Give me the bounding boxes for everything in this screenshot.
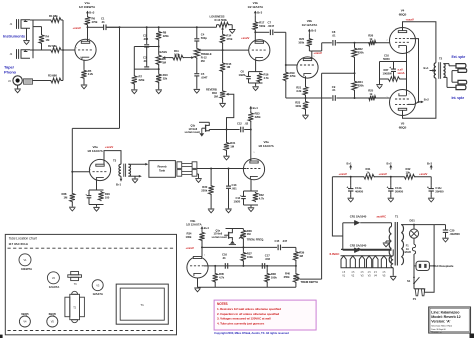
- resistor R20 100k plate V2b: [308, 34, 310, 38]
- capacitor C1 .01: [88, 26, 104, 28]
- power node B+2: [390, 176, 392, 178]
- potentiometer TREBLE R12 2M: [196, 41, 198, 48]
- wire C12 to Q1b: [209, 129, 239, 131]
- resistor R35 4.7k: [214, 266, 216, 273]
- tube V3a 1/2 12AX7A: [243, 159, 264, 180]
- resistor R25 1k grid stopper V5: [368, 96, 377, 101]
- capacitor C14a 40/450: [350, 177, 352, 186]
- svg-text:.01: .01: [101, 20, 105, 24]
- switch S1: [413, 277, 415, 279]
- ground T1 center tap: [386, 240, 392, 242]
- resistor R11 100k: [169, 57, 172, 59]
- resistor R23 100k: [305, 98, 307, 101]
- node loudness wiper to R14: [222, 30, 224, 33]
- svg-text:3AGB: 3AGB: [404, 251, 411, 254]
- svg-text:.01: .01: [332, 34, 336, 38]
- resistor R39 1M: [293, 251, 298, 261]
- svg-text:500k: 500k: [259, 24, 265, 28]
- wire heater bus bottom: [341, 267, 394, 269]
- tube V2a 1/2 12AX7A: [89, 159, 110, 180]
- capacitor C7 .0047: [269, 30, 271, 36]
- wire heater bus mid: [341, 255, 391, 257]
- transistor Q1b oscillator device: [199, 121, 209, 123]
- node C4 top: [196, 26, 198, 28]
- svg-text:Ext. spkr: Ext. spkr: [452, 55, 466, 59]
- transistor Q1a oscillator device: [226, 228, 244, 230]
- svg-text:.002: .002: [143, 37, 149, 41]
- svg-text:220k: 220k: [358, 51, 364, 55]
- wire heater bus top: [391, 249, 393, 251]
- ground V3a cathode: [250, 205, 252, 207]
- wire reverb send tap: [119, 27, 121, 128]
- svg-text:Schematic: Miles O'Neal: Schematic: Miles O'Neal: [431, 325, 452, 328]
- svg-text:250k: 250k: [284, 275, 290, 279]
- ground R31: [226, 151, 228, 156]
- bass wiper arrow: [163, 57, 169, 59]
- svg-text:+: +: [389, 66, 391, 70]
- svg-text:Date: 30 Sept 00: Date: 30 Sept 00: [431, 328, 446, 331]
- title block: [429, 307, 471, 333]
- wire grid junction to V1b: [223, 49, 249, 51]
- svg-text:Version: 'A': Version: 'A': [431, 320, 450, 324]
- svg-text:220k: 220k: [255, 115, 261, 119]
- wire mains right leg: [424, 225, 434, 293]
- ground R23: [305, 109, 307, 114]
- svg-text:.001: .001: [232, 186, 238, 190]
- resistor R6 470k plate load V1a: [87, 14, 89, 17]
- resistor R14 470k: [220, 33, 225, 43]
- capacitor C13 .001: [228, 169, 230, 186]
- fuse F1 1A 3AGB: [413, 238, 415, 244]
- svg-text:220k: 220k: [201, 189, 207, 193]
- svg-text:3. Voltages measured w/ 120VAC: 3. Voltages measured w/ 120VAC at wall: [217, 317, 271, 321]
- svg-text:100k: 100k: [186, 235, 192, 239]
- svg-text:4.7k: 4.7k: [219, 276, 225, 280]
- resistor R42 10k: [404, 174, 416, 179]
- svg-text:Instruments: Instruments: [3, 34, 26, 39]
- svg-text:22k: 22k: [163, 76, 168, 80]
- wire T3 secondary to tank: [128, 163, 146, 165]
- wire trem depth wiper: [300, 278, 322, 280]
- svg-text:TREM DEPTH: TREM DEPTH: [301, 280, 318, 284]
- chart tube V1: [19, 254, 31, 266]
- svg-text:Phono: Phono: [4, 70, 17, 75]
- capacitor C14c 20/450: [430, 177, 432, 186]
- svg-text:socket mount: socket mount: [212, 236, 228, 239]
- cathode network V2a C11 R29: [96, 180, 98, 190]
- svg-text:20/450: 20/450: [435, 189, 444, 193]
- wire C9 to V5 grid: [336, 97, 389, 99]
- wire V2b grid feed: [285, 64, 287, 66]
- svg-text:B+3: B+3: [427, 161, 432, 165]
- wire jack sleeve bus: [32, 20, 34, 58]
- svg-text:1/2 12AX7A: 1/2 12AX7A: [248, 5, 264, 9]
- wire V2a grid: [72, 171, 89, 173]
- phono plug housing: [24, 79, 33, 84]
- svg-text:500p: 500p: [201, 36, 207, 40]
- corner mark: [470, 334, 474, 338]
- power B+3 for V1b: [254, 11, 256, 15]
- svg-text:+: +: [427, 186, 429, 190]
- chart transformer T1: [116, 284, 168, 324]
- svg-text:Model: Reverb 12: Model: Reverb 12: [431, 315, 460, 319]
- svg-text:3.3k: 3.3k: [296, 89, 302, 93]
- svg-text:.002/600: .002/600: [450, 232, 461, 236]
- power B+1 to output transformer: [430, 70, 435, 72]
- ground V1a cathode: [83, 78, 85, 84]
- svg-text:CR1 SA/1040: CR1 SA/1040: [350, 214, 367, 218]
- wire R8 to bass pot: [158, 40, 160, 54]
- wire grid junction to V1a: [62, 49, 64, 51]
- resistor R34 100k plate V3b: [201, 230, 203, 232]
- svg-text:xxxVAC: xxxVAC: [377, 214, 387, 218]
- svg-text:100: 100: [105, 196, 110, 200]
- wire rectifier left join: [342, 223, 344, 250]
- ground tank connector: [197, 173, 199, 175]
- wire R24 to lower bus: [354, 90, 356, 98]
- speaker jack ext: [443, 63, 449, 65]
- svg-text:+xxxV: +xxxV: [419, 172, 427, 176]
- screen wire V4: [410, 39, 419, 102]
- transformer T1 heater winding: [391, 256, 393, 268]
- heater windings V1-V5: [341, 256, 346, 268]
- resistor R21 3.3k cathode V2b: [305, 76, 307, 86]
- wire V3a plate stem: [250, 121, 252, 161]
- capacitor C14b 20/450: [390, 177, 392, 186]
- svg-text:.0047: .0047: [268, 24, 275, 28]
- svg-text:T3: T3: [113, 158, 117, 162]
- svg-text:B+1: B+1: [347, 161, 352, 165]
- resistor R7 220k: [132, 75, 137, 85]
- tube V1a 1/2 10EW7A: [75, 39, 96, 60]
- svg-text:+: +: [347, 186, 349, 190]
- svg-text:R1 68k: R1 68k: [49, 14, 58, 18]
- svg-text:470k: 470k: [92, 20, 98, 24]
- ground R10: [158, 83, 160, 90]
- svg-text:DS1: DS1: [410, 218, 416, 222]
- ground C14a: [350, 194, 352, 197]
- node R8 top: [158, 26, 160, 28]
- svg-text:B+1: B+1: [424, 66, 429, 70]
- svg-text:.047: .047: [282, 239, 288, 243]
- wire B+ rail: [332, 176, 363, 178]
- svg-text:CR2 SA/1040: CR2 SA/1040: [350, 243, 367, 247]
- resistor R37 100k: [242, 247, 244, 251]
- svg-text:T1: T1: [395, 214, 399, 218]
- svg-text:.0047: .0047: [201, 75, 208, 79]
- resistor R28 1M: [71, 172, 73, 193]
- svg-text:+xxxV: +xxxV: [379, 172, 387, 176]
- ground REVERB pot: [222, 98, 224, 102]
- svg-text:C12: C12: [237, 121, 242, 125]
- tank output connectors: [177, 162, 182, 169]
- wire V4 plate to transformer: [403, 22, 436, 63]
- wire V5 plate to transformer: [403, 78, 436, 118]
- capacitor C9 .01: [332, 95, 334, 101]
- wire R22 R24 junction: [354, 57, 356, 80]
- svg-text:470k: 470k: [290, 74, 296, 78]
- transformer T1 HV secondary: [391, 223, 393, 227]
- svg-text:100k: 100k: [271, 276, 277, 280]
- tube V1b 1/2 12AX7A: [249, 40, 270, 61]
- svg-text:+: +: [387, 186, 389, 190]
- ground C14b: [390, 194, 392, 197]
- ground C20: [442, 237, 449, 239]
- tube location chart box: [5, 234, 176, 334]
- svg-text:T1: T1: [140, 303, 144, 307]
- corner mark bottom left: [0, 335, 3, 338]
- resistor R5 2.2k cathode V1a: [83, 60, 85, 70]
- capacitor C12 .02: [240, 127, 242, 133]
- resistor R19 470k: [285, 65, 287, 71]
- svg-text:B+3: B+3: [89, 10, 94, 14]
- AC receptacle: [416, 261, 429, 270]
- svg-text:12AX7A: 12AX7A: [92, 292, 103, 296]
- power B+3 for V2b: [308, 29, 310, 33]
- svg-text:6BQ5: 6BQ5: [399, 125, 407, 129]
- cathode network C10 R27: [406, 46, 408, 79]
- wire C7 to splitter bus: [274, 31, 286, 33]
- svg-text:AC Receptacle: AC Receptacle: [435, 264, 454, 268]
- svg-text:T2: T2: [439, 56, 443, 60]
- ground phono jack: [17, 85, 19, 88]
- wire trem grid bus: [204, 265, 296, 267]
- resistor R1 68k: [50, 18, 62, 23]
- chassis dashed bottom line: [8, 330, 174, 332]
- wire bass cap taps: [134, 46, 158, 48]
- svg-text:1/2 12AX7A: 1/2 12AX7A: [302, 23, 318, 27]
- svg-text:10k: 10k: [406, 170, 411, 174]
- svg-text:220k: 220k: [163, 34, 169, 38]
- svg-text:6BQ5: 6BQ5: [399, 12, 407, 16]
- svg-text:6.3VAC: 6.3VAC: [330, 252, 341, 256]
- jack J1: [21, 20, 30, 29]
- capacitor C3 .01: [144, 66, 149, 68]
- ground V1b cathode: [255, 83, 257, 86]
- svg-text:40/450: 40/450: [355, 189, 364, 193]
- cathode network V3a C14 R32: [250, 179, 252, 191]
- svg-text:Int. spkr: Int. spkr: [452, 96, 465, 100]
- chart transformer T3: [71, 272, 79, 275]
- treble wiper arrow: [183, 57, 192, 59]
- svg-text:R3 68K: R3 68K: [48, 74, 57, 78]
- wire V3b plate stem: [201, 241, 203, 257]
- svg-text:Copyright 2000, Miles O'Neal,: Copyright 2000, Miles O'Neal, Austin, TX…: [214, 331, 289, 335]
- svg-text:Tank: Tank: [159, 168, 166, 172]
- transformer T2 secondary: [443, 64, 445, 78]
- chart tube V3: [92, 280, 103, 291]
- svg-text:R-13 500k: R-13 500k: [215, 18, 228, 22]
- svg-text:470k: 470k: [226, 37, 232, 41]
- resistor R30 220k: [210, 169, 212, 185]
- wire main signal bus: [119, 26, 121, 28]
- resistor R4 1M: [41, 27, 43, 34]
- capacitor C20 .002/600: [434, 224, 445, 226]
- potentiometer R40 250k trem depth: [293, 273, 298, 283]
- svg-text:+xxxV: +xxxV: [186, 246, 194, 250]
- tube V5 6BQ5: [390, 90, 416, 116]
- wire rail to rectifier: [332, 177, 342, 236]
- capacitor C8 .01: [332, 40, 334, 46]
- label B+2 screens: [408, 103, 414, 105]
- svg-text:+xxxV: +xxxV: [406, 18, 414, 22]
- wire V2a plate to T3: [104, 151, 121, 165]
- wire trem bottom bus: [197, 278, 199, 287]
- svg-text:.002: .002: [265, 257, 271, 261]
- svg-text:+xxxV: +xxxV: [73, 26, 81, 30]
- wire C2 to C3: [146, 47, 148, 66]
- wire C2 branch: [146, 27, 148, 44]
- wire V1b plate stem: [254, 30, 256, 42]
- svg-text:.01: .01: [222, 256, 226, 260]
- svg-text:B+3: B+3: [257, 10, 262, 14]
- svg-text:C15: C15: [275, 239, 280, 243]
- loudness wiper arrow: [222, 29, 224, 30]
- wire J1 tip to R1: [30, 19, 50, 21]
- wire C8 to V4 grid: [336, 42, 389, 44]
- cathode network V1b C6 R16: [255, 60, 257, 71]
- ground C14c: [430, 194, 432, 197]
- ground T3 secondary: [134, 176, 136, 178]
- svg-text:TREM. FREQ.: TREM. FREQ.: [247, 238, 264, 242]
- svg-text:10/20: 10/20: [239, 73, 246, 77]
- chart transformer T2: [72, 291, 78, 294]
- svg-text:+xxxV: +xxxV: [313, 51, 321, 55]
- svg-text:xxmA: xxmA: [398, 71, 405, 75]
- wire treble pot to C5: [196, 58, 198, 73]
- power B+4 for V3a: [250, 107, 252, 111]
- notes box: [214, 300, 316, 330]
- svg-text:4.7k: 4.7k: [259, 196, 265, 200]
- capacitor C15 .047: [277, 245, 279, 251]
- svg-text:117 VAC 60 Hz: 117 VAC 60 Hz: [9, 242, 29, 246]
- resistor R41 1k: [363, 174, 375, 179]
- phono jack J3: [13, 76, 22, 85]
- plug P1: [413, 283, 415, 288]
- svg-text:B+1: B+1: [116, 182, 121, 186]
- capacitor C16 .01: [224, 263, 226, 269]
- svg-text:R2 68k: R2 68k: [48, 44, 57, 48]
- svg-text:10EW7A: 10EW7A: [21, 267, 33, 271]
- wire treble wiper to junction: [199, 49, 223, 51]
- resistor R15 1M: [220, 62, 225, 72]
- resistor R26 1k grid stopper V4: [368, 40, 377, 45]
- svg-text:6BQ5: 6BQ5: [21, 312, 29, 316]
- resistor R3 68K: [50, 78, 62, 83]
- ground trem oscillator: [194, 287, 201, 289]
- svg-text:+xxxV: +xxxV: [105, 145, 113, 149]
- svg-text:100k: 100k: [295, 104, 301, 108]
- capacitor C5 .0047: [194, 73, 199, 75]
- wire R14 to V1b grid junction: [222, 43, 224, 62]
- svg-text:1/2 10EW7A: 1/2 10EW7A: [79, 5, 96, 9]
- ground cathode network: [376, 84, 383, 86]
- wire R19 to lower bus: [285, 81, 287, 98]
- wire V1b plate to C7: [255, 31, 269, 33]
- wire R15 to reverb pot: [222, 72, 224, 90]
- tube V4 6BQ5: [390, 28, 416, 54]
- svg-text:B+2: B+2: [424, 98, 429, 102]
- resistor R10 22k: [156, 73, 161, 83]
- svg-text:1/2 12AX7A: 1/2 12AX7A: [258, 144, 274, 148]
- power B+4 for V3b: [201, 227, 203, 231]
- wire V2b plate to top coupling bus: [312, 50, 322, 52]
- transformer T1 core: [394, 222, 396, 266]
- wire trem injection: [322, 72, 355, 74]
- wire reverb wiper to recovery mix: [227, 94, 234, 129]
- wire plate to C12: [244, 129, 251, 131]
- resistor R17 500k plate V1b: [254, 15, 256, 21]
- wire lower coupling bus: [286, 97, 332, 99]
- power node B+1: [350, 176, 352, 178]
- ground C5: [196, 76, 198, 89]
- svg-text:1k: 1k: [369, 37, 372, 41]
- ground R30: [210, 194, 212, 208]
- svg-text:100k: 100k: [298, 41, 304, 45]
- svg-text:Tube Location Chart: Tube Location Chart: [9, 236, 38, 240]
- transformer T1 primary: [401, 225, 403, 265]
- svg-text:1/2 12AX7A: 1/2 12AX7A: [87, 149, 103, 153]
- svg-text:220k: 220k: [139, 78, 145, 82]
- svg-text:1. Resistors 1/2 watt unless o: 1. Resistors 1/2 watt unless otherwise s…: [217, 307, 281, 311]
- svg-text:10/20: 10/20: [234, 200, 241, 204]
- resistor R31 1M: [226, 130, 228, 142]
- resistor R33 220k plate V3a: [250, 111, 252, 112]
- resistor R2 68k: [50, 48, 62, 53]
- wire trem top bus: [242, 239, 244, 248]
- ground input jacks: [26, 28, 28, 40]
- wire V2b plate stem: [308, 46, 310, 51]
- reverb wiper arrow: [228, 93, 229, 95]
- resistor R24 220k: [352, 80, 357, 91]
- capacitor C17 .002: [261, 263, 263, 269]
- svg-text:2. Capacitors in uF unless oth: 2. Capacitors in uF unless otherwise spe…: [217, 312, 279, 316]
- svg-text:220k: 220k: [358, 84, 364, 88]
- potentiometer R36 1M trem freq: [242, 228, 244, 231]
- wire T1 primary top to mains: [401, 224, 434, 226]
- wire top bus to R39: [282, 246, 296, 248]
- svg-text:BASS: BASS: [160, 50, 168, 54]
- svg-text:4. Tube pins currently just gu: 4. Tube pins currently just guesses: [217, 321, 265, 325]
- wire J3 to R3: [33, 80, 51, 82]
- svg-text:+xxxV: +xxxV: [339, 172, 347, 176]
- reverb tank box: [149, 161, 176, 178]
- wire loudness jog: [216, 25, 218, 28]
- chassis dashed top line: [8, 247, 174, 249]
- wire fuse to receptacle: [413, 254, 415, 283]
- svg-text:socket mount: socket mount: [185, 131, 201, 134]
- svg-text:B+4: B+4: [253, 106, 258, 110]
- resistor R38 100k: [266, 266, 268, 273]
- svg-text:100/2W: 100/2W: [383, 72, 393, 76]
- svg-text:S1: S1: [407, 279, 411, 283]
- svg-text:50/50: 50/50: [383, 57, 390, 61]
- resistor R8 220k: [158, 27, 160, 30]
- capacitor C2 .002: [144, 44, 149, 46]
- wire V1a plate stem: [87, 27, 89, 41]
- svg-text:B+4: B+4: [204, 226, 209, 230]
- svg-text:1/2 12AX7A: 1/2 12AX7A: [186, 223, 202, 227]
- wire V5 cathode stem: [406, 79, 408, 96]
- wire reverb recovery: [197, 168, 246, 170]
- svg-text:NOTES: NOTES: [217, 302, 228, 306]
- tube V2b 1/2 12AX7A: [297, 57, 318, 78]
- svg-text:100k: 100k: [247, 255, 253, 259]
- svg-text:2.2k: 2.2k: [88, 72, 94, 76]
- speaker jack int: [443, 76, 447, 78]
- svg-text:1k: 1k: [369, 92, 372, 96]
- transformer T2 core: [438, 62, 440, 79]
